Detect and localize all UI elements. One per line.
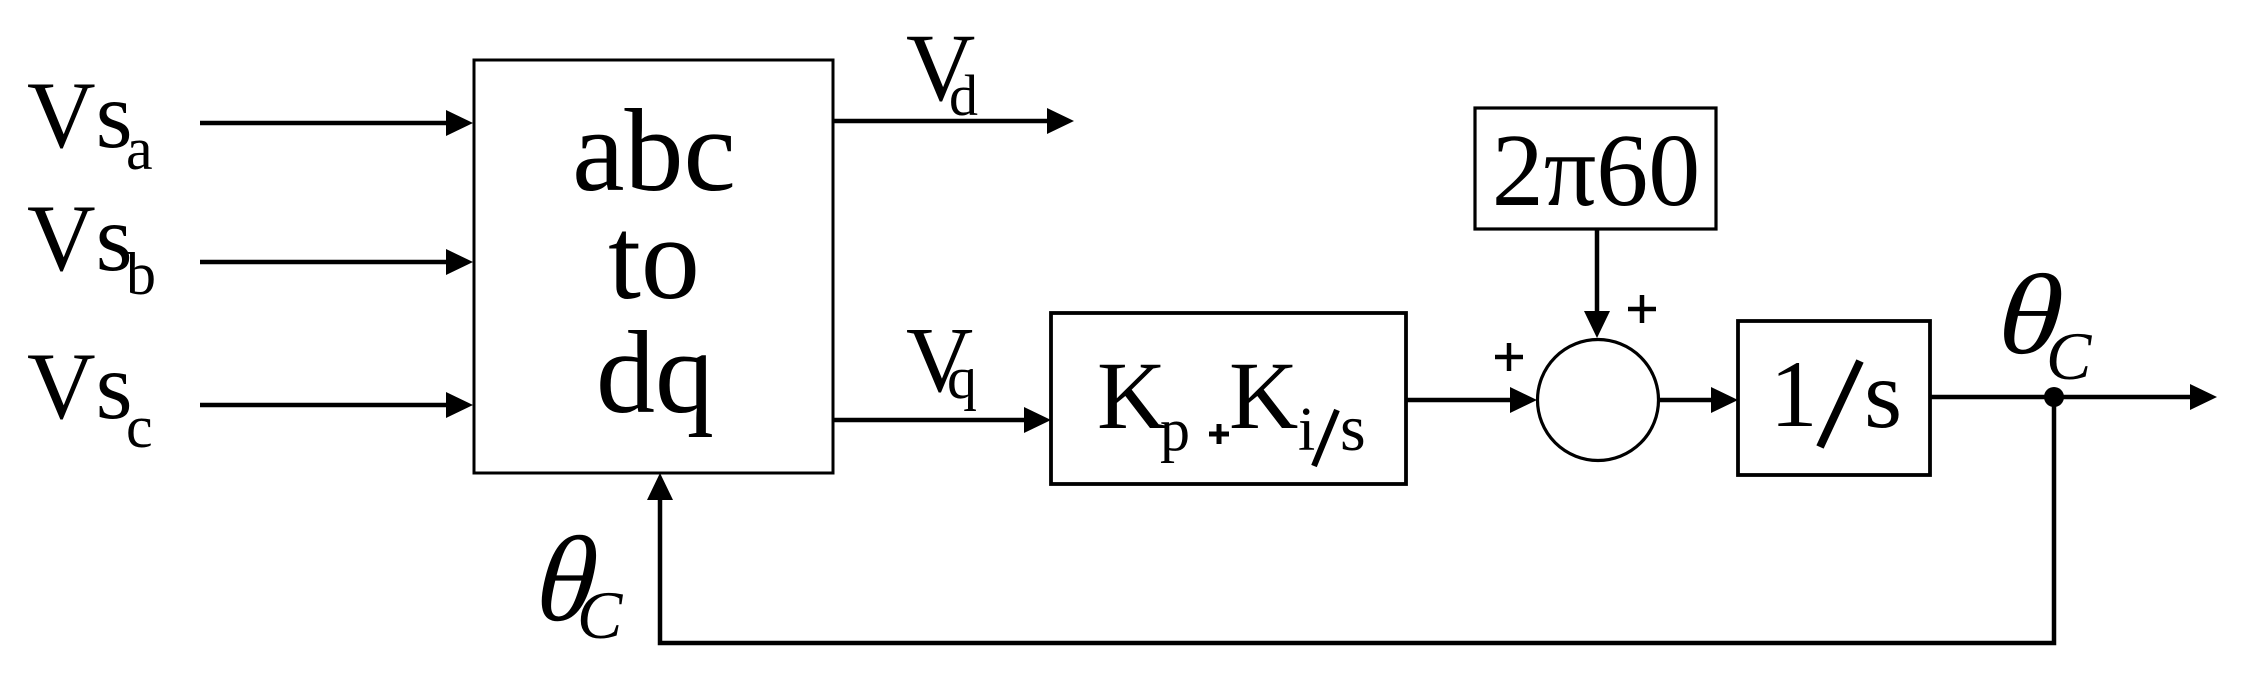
block PI controller Kp+Ki/s [1051,313,1406,484]
svg-text:s: s [1340,392,1366,465]
svg-text:q: q [947,345,977,411]
wire 2pi60 to summing junction [1584,229,1610,338]
wire PI output to summing junction [1406,387,1537,413]
svg-text:K: K [1229,342,1298,449]
svg-text:2π60: 2π60 [1492,113,1701,228]
wire integrator output [1930,384,2217,410]
block abc-to-dq transform [474,60,833,473]
summing junction [1538,340,1659,461]
svg-text:b: b [126,241,156,307]
wire Vq to PI block [833,407,1051,433]
label Vd [906,14,978,128]
svg-text:C: C [2046,318,2092,394]
svg-text:d: d [949,63,978,128]
svg-text:Vs: Vs [27,333,133,439]
wire Vd output [833,108,1074,134]
plus sign top input of summing junction [1628,295,1656,323]
svg-text:1: 1 [1770,341,1818,447]
label Vq [906,309,977,412]
block constant 2pi60 [1475,108,1716,229]
svg-text:p: p [1160,397,1190,463]
wire Vsa input [200,110,473,136]
svg-text:Vs: Vs [27,185,133,291]
svg-text:i: i [1298,396,1315,464]
node thetaC pickoff dot [2044,387,2064,407]
block integrator 1/s [1738,321,1930,475]
wire Vsc input [200,392,473,418]
svg-text:c: c [126,394,153,460]
svg-text:Vs: Vs [27,62,133,168]
wire feedback from node down and across [647,397,2054,643]
svg-text:C: C [577,577,623,653]
svg-text:a: a [126,116,153,182]
svg-text:s: s [1864,341,1902,449]
label Vsa [27,62,153,182]
label thetaC output [1985,251,2092,394]
label Vsb [27,185,156,307]
svg-text:K: K [1097,342,1166,449]
plus sign left input of summing junction [1495,343,1523,371]
svg-text:dq: dq [596,307,714,438]
svg-text:to: to [608,193,700,324]
wire summing junction to integrator [1659,387,1738,413]
label Vsc [27,333,153,460]
label thetaC feedback [522,512,623,653]
wire Vsb input [200,249,473,275]
